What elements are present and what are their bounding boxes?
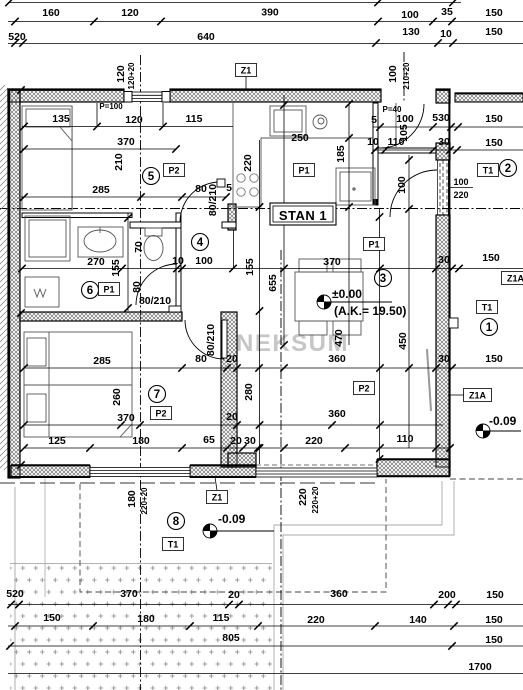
svg-text:470: 470: [333, 329, 345, 347]
shower: [25, 216, 70, 261]
svg-text:20: 20: [226, 353, 238, 365]
svg-text:T1: T1: [483, 166, 494, 176]
wall interior stub: [228, 453, 256, 467]
terrain area: [10, 564, 272, 690]
svg-text:360: 360: [330, 588, 348, 600]
svg-text:220+20: 220+20: [140, 487, 149, 514]
svg-text:120: 120: [115, 65, 127, 83]
svg-text:10: 10: [440, 28, 452, 40]
bed room7: [24, 332, 132, 437]
dimension lines vertical chains: [97, 95, 409, 464]
svg-text:20: 20: [230, 435, 242, 447]
wall bottom right seg: [377, 460, 450, 477]
svg-text:115: 115: [186, 113, 203, 125]
svg-text:Z1A: Z1A: [507, 274, 523, 284]
svg-text:1: 1: [486, 322, 493, 334]
svg-text:130: 130: [402, 26, 420, 38]
ticks y149: [20, 145, 27, 152]
svg-text:30: 30: [438, 353, 450, 365]
svg-text:280: 280: [243, 383, 255, 401]
svg-text:125: 125: [48, 435, 66, 447]
svg-text:7: 7: [154, 389, 160, 401]
partition entry vertical: [373, 103, 378, 205]
stove burners: [237, 174, 258, 196]
svg-text:270: 270: [87, 256, 105, 268]
svg-text:260: 260: [111, 388, 123, 406]
axis vertical C short: [403, 52, 405, 103]
bed room5: [22, 106, 73, 210]
svg-text:P2: P2: [155, 409, 166, 419]
window right (entry) dashed: [438, 160, 449, 215]
plan dim text: [48, 102, 503, 447]
svg-text:20: 20: [228, 589, 240, 601]
svg-text:160: 160: [42, 7, 60, 19]
svg-text:360: 360: [328, 353, 346, 365]
svg-text:80/210: 80/210: [207, 184, 219, 216]
svg-text:4: 4: [197, 237, 204, 249]
svg-text:150: 150: [485, 137, 503, 149]
kitchen counter: [233, 103, 396, 207]
svg-text:30: 30: [244, 435, 256, 447]
washing machine: [25, 277, 59, 307]
svg-text:200: 200: [438, 589, 456, 601]
svg-text:2: 2: [505, 163, 511, 175]
svg-text:120: 120: [125, 114, 143, 126]
svg-text:370: 370: [120, 588, 138, 600]
svg-text:135: 135: [52, 113, 70, 125]
svg-text:Z1: Z1: [241, 66, 252, 76]
partition entry cap: [373, 199, 379, 205]
partition hall top west: [130, 222, 181, 228]
sink bath: [78, 227, 123, 257]
svg-text:5: 5: [371, 114, 377, 126]
svg-text:(A.K.= 19.50): (A.K.= 19.50): [334, 304, 406, 318]
svg-text:250: 250: [291, 132, 309, 144]
svg-text:120+20: 120+20: [127, 62, 136, 89]
svg-text:805: 805: [222, 632, 240, 644]
ticks row2: [11, 39, 18, 46]
svg-text:Z1: Z1: [212, 493, 223, 503]
svg-text:100: 100: [453, 177, 468, 187]
svg-text:155: 155: [244, 258, 256, 276]
wall top mid: [170, 89, 381, 102]
svg-text:640: 640: [197, 31, 215, 43]
svg-text:70: 70: [133, 241, 145, 253]
svg-text:6: 6: [87, 285, 93, 297]
svg-text:10: 10: [367, 136, 379, 148]
svg-text:80: 80: [195, 183, 207, 195]
dimension lines horizontal: [8, 3, 523, 449]
svg-text:220: 220: [242, 154, 254, 172]
svg-text:100: 100: [401, 9, 419, 21]
room number circles: [82, 160, 517, 530]
svg-text:STAN 1: STAN 1: [279, 208, 327, 223]
ticks y268: [18, 265, 25, 272]
window top jambs: [124, 92, 132, 103]
svg-text:8: 8: [173, 516, 180, 528]
left facade line extended: [14, 487, 16, 690]
window top: [132, 92, 162, 102]
dining table: [295, 259, 363, 335]
svg-text:210: 210: [113, 153, 125, 171]
svg-text:80: 80: [131, 281, 143, 293]
svg-text:180: 180: [137, 613, 155, 625]
axis vertical A: [140, 55, 142, 690]
svg-text:±0.00: ±0.00: [332, 287, 362, 301]
level symbol living: [317, 295, 331, 309]
svg-text:T1: T1: [168, 540, 179, 550]
svg-text:530: 530: [432, 112, 450, 124]
fridge: [336, 168, 375, 205]
svg-text:150: 150: [486, 589, 504, 601]
svg-text:80/210: 80/210: [205, 324, 217, 356]
svg-text:155: 155: [110, 259, 122, 277]
svg-text:P2: P2: [358, 384, 369, 394]
diagonal cut hatch left edge: [0, 85, 8, 470]
boxed labels: [99, 64, 523, 551]
wall interior horizontal bath/bed: [20, 312, 182, 321]
svg-text:100: 100: [195, 255, 213, 267]
svg-text:180: 180: [126, 490, 138, 508]
door room5 arc: [180, 182, 220, 222]
svg-text:30: 30: [438, 136, 450, 148]
svg-text:285: 285: [92, 184, 110, 196]
ticks row0: [5, 0, 12, 6]
window bottom bedroom: [90, 468, 190, 477]
wall left: [8, 89, 20, 478]
canopy outline outer: [283, 481, 454, 690]
svg-text:370: 370: [117, 136, 135, 148]
svg-text:-0.09: -0.09: [218, 512, 246, 526]
terrace dashed boundary: [0, 482, 377, 484]
svg-text:150: 150: [482, 252, 500, 264]
toilet: [144, 228, 163, 261]
svg-text:150: 150: [485, 353, 503, 365]
svg-text:150: 150: [485, 26, 503, 38]
svg-text:150: 150: [485, 7, 503, 19]
terrain top edge: [10, 563, 272, 565]
ticks y425: [20, 421, 27, 428]
wall neighbor right: [455, 93, 523, 102]
svg-text:220: 220: [305, 435, 323, 447]
ticks y126: [20, 123, 27, 130]
svg-text:5: 5: [226, 182, 232, 194]
wall kitchen stub: [228, 204, 236, 230]
axis horizontal: [0, 208, 523, 210]
svg-text:P1: P1: [298, 166, 309, 176]
partition bath top: [22, 213, 132, 218]
svg-text:220+20: 220+20: [311, 486, 320, 513]
svg-text:80/210: 80/210: [139, 295, 171, 307]
svg-text:140: 140: [409, 614, 427, 626]
svg-text:100: 100: [387, 65, 399, 83]
svg-text:220: 220: [453, 190, 468, 200]
ticks bottom rows: [7, 601, 14, 608]
axis vertical B: [280, 250, 282, 690]
svg-text:655: 655: [267, 274, 279, 292]
canopy outline inner: [274, 481, 442, 690]
svg-text:285: 285: [93, 355, 111, 367]
wall vent square: [449, 318, 458, 328]
top row dim text: [8, 6, 503, 43]
sliding glass leaf: [427, 349, 431, 411]
door bath arc: [136, 264, 177, 305]
ticks y197: [20, 193, 27, 200]
svg-text:370: 370: [117, 412, 135, 424]
svg-text:390: 390: [261, 7, 279, 19]
kitchen sink: [270, 106, 306, 136]
svg-text:T1: T1: [482, 303, 493, 313]
svg-text:150: 150: [485, 614, 503, 626]
svg-text:210+20: 210+20: [402, 62, 411, 89]
svg-text:P1: P1: [103, 285, 114, 295]
thick outer borders: [9, 90, 523, 478]
svg-text:105: 105: [398, 124, 410, 142]
svg-text:P1: P1: [368, 240, 379, 250]
partition hall top east: [222, 222, 236, 228]
wall bottom mid seg: [190, 466, 256, 478]
svg-text:150: 150: [485, 113, 503, 125]
svg-text:370: 370: [323, 256, 341, 268]
leader lines: [245, 77, 247, 91]
svg-text:100: 100: [396, 176, 408, 194]
svg-text:10: 10: [172, 255, 184, 267]
STAN 1 title: [270, 203, 336, 225]
svg-text:220: 220: [297, 488, 309, 506]
svg-text:360: 360: [328, 408, 346, 420]
ticks row1: [11, 18, 18, 25]
svg-text:20: 20: [226, 411, 238, 423]
svg-text:1700: 1700: [468, 661, 492, 673]
svg-text:35: 35: [441, 6, 453, 18]
wall right seg1: [436, 143, 450, 160]
svg-text:3: 3: [380, 273, 386, 285]
partition entry horizontal: [378, 148, 436, 153]
level symbol terrace bottom: [203, 524, 217, 538]
svg-text:150: 150: [43, 612, 61, 624]
svg-text:Z1A: Z1A: [469, 391, 487, 401]
window bottom living: [256, 468, 377, 477]
door bedroom leaf+arc: [222, 320, 227, 358]
wall right seg2: [436, 215, 450, 467]
svg-text:P2: P2: [168, 166, 179, 176]
svg-text:185: 185: [335, 145, 347, 163]
door entry arc: [380, 104, 424, 148]
svg-text:450: 450: [397, 332, 409, 350]
svg-text:5: 5: [148, 171, 155, 183]
svg-text:520: 520: [6, 588, 24, 600]
hob spiral: [313, 115, 327, 129]
bottom dim rows text: [6, 588, 504, 673]
wall bottom left seg: [11, 466, 90, 478]
svg-text:520: 520: [8, 31, 26, 43]
ticks y448: [20, 444, 27, 451]
svg-text:65: 65: [203, 434, 215, 446]
svg-text:110: 110: [397, 433, 414, 445]
svg-text:100: 100: [396, 113, 414, 125]
bottom dimension lines: [8, 605, 523, 674]
svg-text:150: 150: [485, 634, 503, 646]
svg-text:220: 220: [307, 614, 325, 626]
wall top left: [8, 89, 124, 102]
svg-text:120: 120: [121, 7, 139, 19]
svg-text:30: 30: [438, 254, 450, 266]
wall interior vertical: [221, 312, 237, 467]
wall entry pillar top: [436, 89, 450, 103]
level symbol terrace right: [476, 424, 490, 438]
svg-text:180: 180: [132, 435, 150, 447]
ticks vertical chains: [256, 203, 263, 210]
partition bath right: [176, 213, 181, 312]
svg-text:P=100: P=100: [99, 102, 123, 111]
door hall arc: [390, 170, 437, 217]
ticks y368: [20, 364, 27, 371]
svg-text:115: 115: [213, 612, 230, 624]
svg-text:-0.09: -0.09: [489, 414, 517, 428]
